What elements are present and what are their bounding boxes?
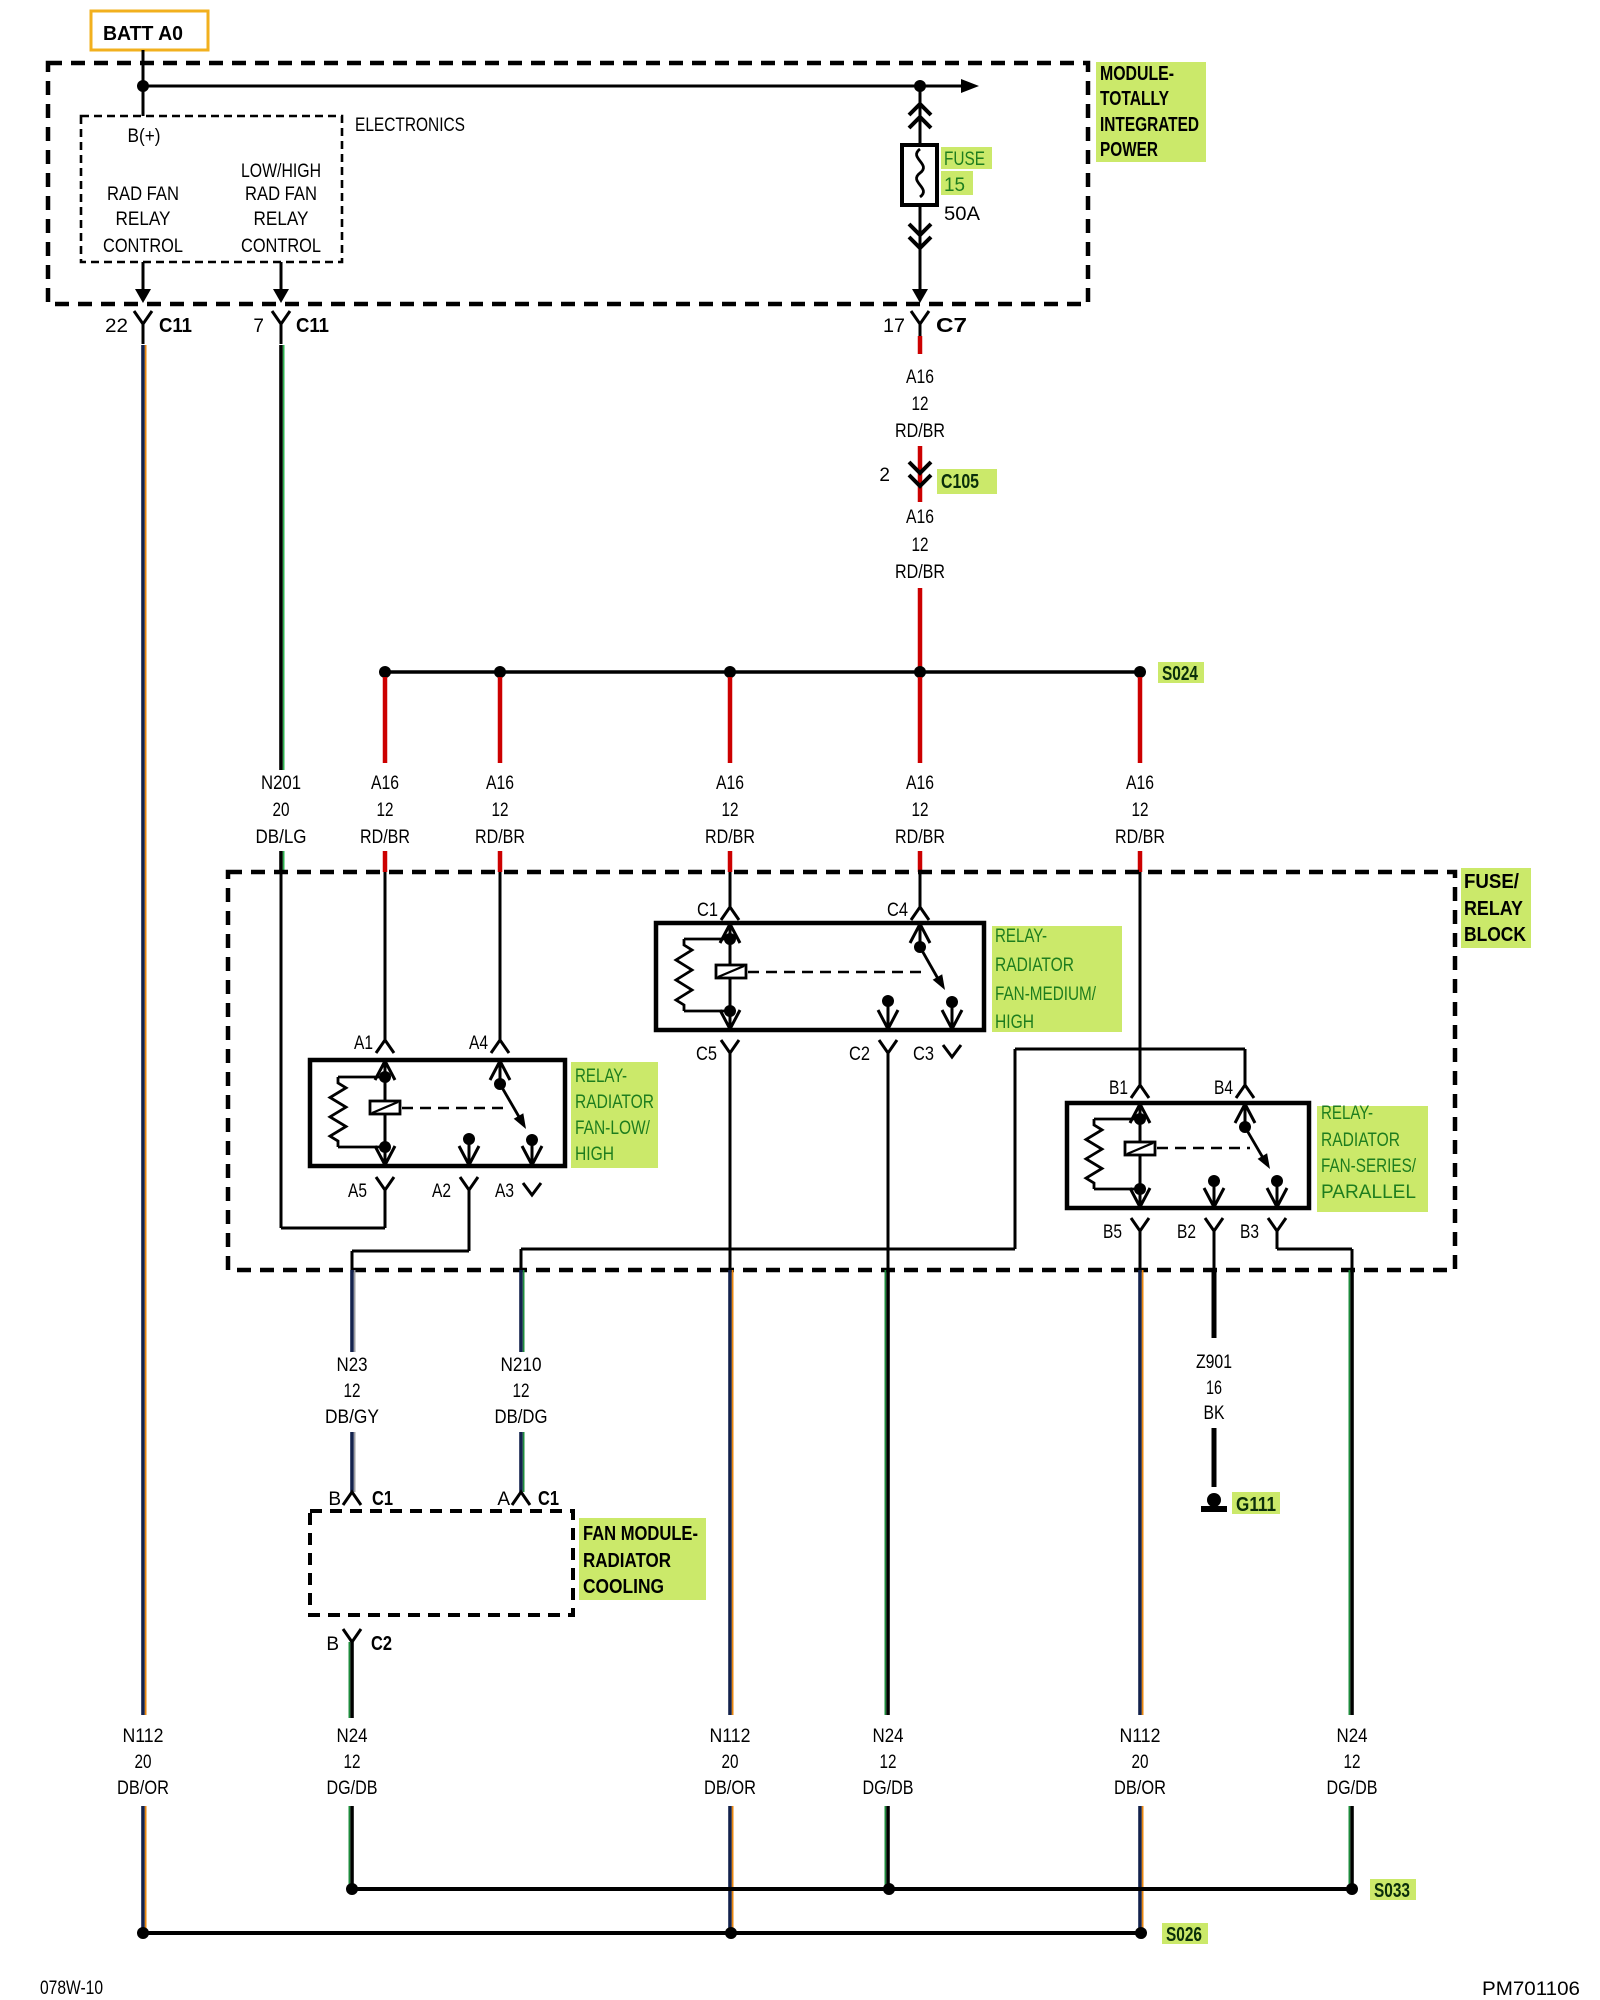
- svg-text:PM701106: PM701106: [1482, 1979, 1580, 2000]
- svg-text:CONTROL: CONTROL: [241, 236, 321, 257]
- connector C1 pin B (fan module): [328, 1488, 393, 1510]
- label A16 12 RD/BR at x=920: [895, 773, 945, 848]
- connector pin B4: [1214, 1078, 1254, 1099]
- relay U1 RELAY-RADIATOR FAN-LOW/HIGH box: [310, 1060, 565, 1166]
- svg-text:PARALLEL: PARALLEL: [1321, 1182, 1416, 1203]
- svg-text:RD/BR: RD/BR: [360, 827, 410, 848]
- wire N23 lower to connector: [352, 1432, 355, 1492]
- wire N24 center lower to splice S033: [885, 1806, 888, 1889]
- svg-text:7: 7: [253, 316, 264, 337]
- svg-text:C11: C11: [159, 315, 192, 337]
- wire: low/high rad fan relay control output: [273, 262, 289, 303]
- svg-text:S026: S026: [1166, 1924, 1202, 1946]
- connector C11 pin 22: [105, 311, 192, 344]
- wire N24 12 DG/DB (from B3): [1349, 1270, 1352, 1715]
- svg-text:2: 2: [879, 465, 890, 486]
- svg-text:20: 20: [722, 1752, 739, 1773]
- wire: fuse output to C7: [912, 289, 928, 303]
- wire relay3 B5 down: [1139, 1231, 1142, 1270]
- svg-text:12: 12: [912, 535, 929, 556]
- svg-text:B1: B1: [1109, 1078, 1128, 1099]
- svg-text:RADIATOR: RADIATOR: [1321, 1130, 1400, 1151]
- svg-text:RADIATOR: RADIATOR: [575, 1092, 654, 1113]
- wire A16 12 RD/BR (fused feed): [918, 336, 923, 354]
- wire to relay2 pin C4: [919, 872, 922, 907]
- wire N112 left lower to splice S026: [143, 1806, 146, 1933]
- wire relay3 B2 down: [1213, 1231, 1216, 1270]
- sheet number 078W-10: [40, 1978, 103, 1999]
- wire A16 lower stub at x=920: [918, 851, 923, 872]
- wire N210 12 DB/DG upper: [521, 1270, 524, 1352]
- svg-text:MODULE-: MODULE-: [1100, 63, 1174, 85]
- connector C11 pin 7: [253, 311, 329, 344]
- svg-text:12: 12: [722, 800, 739, 821]
- connector pin B3: [1240, 1218, 1286, 1243]
- connector pin C1: [697, 900, 739, 921]
- connector pin C2: [849, 1040, 897, 1065]
- label N24 12 DG/DB (center): [863, 1726, 914, 1799]
- sheet id PM701106: [1482, 1979, 1580, 2000]
- connector pin A4: [469, 1033, 509, 1054]
- label A16 12 RD/BR at x=1140: [1115, 773, 1165, 848]
- wire: battery bus to fuse, arrow right: [143, 79, 979, 93]
- wire A16 12 RD/BR drop at x=1140: [1138, 677, 1143, 763]
- relay3 switch: [1208, 1105, 1283, 1206]
- svg-text:17: 17: [883, 316, 905, 337]
- connector pin B1: [1109, 1078, 1149, 1099]
- relay3 pin arrows at edges: [1130, 1104, 1287, 1207]
- svg-text:50A: 50A: [944, 204, 980, 225]
- wire below fuse: [919, 205, 922, 291]
- wire Z from relay2 area to relay3 pin B4: [521, 1049, 1245, 1270]
- svg-text:A16: A16: [906, 773, 934, 794]
- wire A16 12 RD/BR drop at x=730: [728, 677, 733, 763]
- svg-text:RD/BR: RD/BR: [895, 421, 945, 442]
- wire: rad fan relay control output: [135, 262, 151, 303]
- svg-text:FAN MODULE-: FAN MODULE-: [583, 1523, 698, 1545]
- wire to relay1 pin A4: [499, 872, 502, 1040]
- svg-text:RELAY: RELAY: [1464, 898, 1524, 920]
- svg-text:POWER: POWER: [1100, 139, 1158, 161]
- svg-text:A3: A3: [495, 1181, 514, 1202]
- svg-text:12: 12: [912, 394, 929, 415]
- label N112 20 DB/OR (right): [1114, 1726, 1166, 1799]
- svg-text:A16: A16: [906, 367, 934, 388]
- label A16 12 RD/BR at x=730: [705, 773, 755, 848]
- splice S033 nodes: [346, 1883, 1358, 1895]
- junction node S024 at x=500: [494, 666, 506, 678]
- svg-text:RELAY-: RELAY-: [995, 926, 1047, 947]
- relay1 label RELAY-RADIATOR FAN-LOW/HIGH: [571, 1062, 658, 1168]
- wire N112 center lower to splice S026: [730, 1806, 733, 1933]
- label G111: [1232, 1492, 1280, 1516]
- relay3 actuation dashed link: [1157, 1147, 1250, 1150]
- svg-text:G111: G111: [1236, 1494, 1276, 1516]
- svg-text:Z901: Z901: [1196, 1352, 1232, 1373]
- splice S024 label: [1158, 662, 1204, 685]
- connector pin B2: [1177, 1218, 1223, 1243]
- svg-text:RAD FAN: RAD FAN: [245, 184, 317, 205]
- svg-text:A: A: [497, 1489, 510, 1510]
- svg-text:15: 15: [944, 175, 965, 196]
- connector C7 pin 17: [883, 311, 967, 337]
- wire N112 right lower to splice S026: [1140, 1806, 1143, 1933]
- pin label B(+): [128, 126, 161, 147]
- label FAN MODULE-RADIATOR COOLING: [579, 1518, 706, 1600]
- svg-text:N24: N24: [337, 1726, 368, 1747]
- svg-text:RELAY-: RELAY-: [575, 1066, 627, 1087]
- svg-text:S033: S033: [1374, 1880, 1410, 1902]
- svg-text:B5: B5: [1103, 1222, 1122, 1243]
- svg-text:12: 12: [1132, 800, 1149, 821]
- wire N24 12 DG/DB (from C2): [885, 1270, 888, 1715]
- wire segment to C105: [918, 446, 923, 502]
- svg-text:C2: C2: [849, 1044, 870, 1065]
- svg-text:BATT A0: BATT A0: [103, 23, 183, 45]
- relay1 switch: [463, 1062, 538, 1164]
- connector pin A5: [348, 1177, 394, 1202]
- wire relay3 B3 jog to N24 column: [1277, 1231, 1352, 1270]
- svg-text:B2: B2: [1177, 1222, 1196, 1243]
- svg-text:A16: A16: [1126, 773, 1154, 794]
- label N201 20 DB/LG: [256, 773, 307, 848]
- svg-text:BK: BK: [1204, 1403, 1225, 1424]
- wire A16 lower stub at x=730: [728, 851, 733, 872]
- svg-text:N24: N24: [873, 1726, 904, 1747]
- battery feed label BATT A0: [91, 11, 208, 50]
- svg-text:DB/LG: DB/LG: [256, 827, 307, 848]
- text LOW/HIGH RAD FAN RELAY CONTROL: [241, 161, 321, 257]
- label FUSE 15 50A: [941, 147, 992, 225]
- wire A16 12 RD/BR drop at x=385: [383, 677, 388, 763]
- junction node S024 at x=920: [914, 666, 926, 678]
- wire N112 20 DB/OR left run: [143, 345, 146, 1715]
- svg-text:B(+): B(+): [128, 126, 161, 147]
- svg-text:TOTALLY: TOTALLY: [1100, 88, 1170, 110]
- relay1 actuation dashed link: [402, 1107, 505, 1110]
- svg-text:12: 12: [344, 1381, 361, 1402]
- svg-text:12: 12: [880, 1752, 897, 1773]
- relay3 coil suppression resistor: [1086, 1119, 1140, 1189]
- svg-text:C7: C7: [936, 315, 967, 337]
- wire N23 12 DB/GY upper: [352, 1270, 355, 1352]
- relay3 coil branch: [1134, 1105, 1146, 1206]
- relay2 coil: [716, 965, 746, 978]
- svg-text:C2: C2: [371, 1633, 392, 1655]
- svg-text:C5: C5: [696, 1044, 717, 1065]
- svg-text:INTEGRATED: INTEGRATED: [1100, 114, 1199, 136]
- svg-text:DB/OR: DB/OR: [704, 1778, 756, 1799]
- splice S033 label: [1370, 1879, 1416, 1902]
- relay2 actuation dashed link: [748, 971, 925, 974]
- svg-text:DG/DB: DG/DB: [1327, 1778, 1378, 1799]
- relay U2 RELAY-RADIATOR FAN-MEDIUM/HIGH box: [656, 923, 984, 1030]
- label N23 12 DB/GY: [325, 1355, 379, 1428]
- wire: tap down to fuse: [919, 86, 922, 146]
- svg-text:RADIATOR: RADIATOR: [995, 955, 1074, 976]
- relay1 coil branch: [379, 1062, 391, 1164]
- label N24 12 DG/DB: [327, 1726, 378, 1799]
- relay2 pin arrows at edges: [720, 924, 962, 1029]
- svg-text:A2: A2: [432, 1181, 451, 1202]
- wire relay1 A2 to fan module: [352, 1190, 469, 1270]
- wire N201 20 DB/LG upper segment: [281, 345, 284, 770]
- module: totally integrated power, dashed outline: [48, 63, 1088, 304]
- wire A16 lower stub at x=1140: [1138, 851, 1143, 872]
- ground G111: [1201, 1493, 1227, 1512]
- wire N24 12 DG/DB from fan module: [349, 1642, 352, 1718]
- svg-text:A5: A5: [348, 1181, 367, 1202]
- junction node at fuse tap: [914, 80, 926, 92]
- svg-text:N112: N112: [1120, 1726, 1161, 1747]
- connector pin A1: [354, 1033, 394, 1054]
- svg-text:C1: C1: [538, 1488, 559, 1510]
- wire N112 20 DB/OR (from B5): [1140, 1270, 1143, 1715]
- svg-text:C11: C11: [296, 315, 329, 337]
- wire A16 12 RD/BR drop at x=500: [498, 677, 503, 763]
- junction node S024 at x=1140: [1134, 666, 1146, 678]
- connector C105 pin 2: [879, 462, 997, 494]
- svg-text:C105: C105: [941, 471, 979, 493]
- wire A16 lower stub at x=385: [383, 851, 388, 872]
- svg-text:HIGH: HIGH: [575, 1144, 614, 1165]
- relay U3 RELAY-RADIATOR FAN-SERIES/PARALLEL box: [1067, 1103, 1309, 1208]
- splice S026 nodes: [137, 1927, 1147, 1939]
- svg-text:HIGH: HIGH: [995, 1012, 1034, 1033]
- wire relay2 C2 down: [887, 1053, 890, 1270]
- svg-text:LOW/HIGH: LOW/HIGH: [241, 161, 321, 182]
- inline connector below fuse: [909, 224, 931, 248]
- svg-text:20: 20: [1132, 1752, 1149, 1773]
- svg-text:12: 12: [513, 1381, 530, 1402]
- svg-text:RELAY: RELAY: [116, 209, 171, 230]
- svg-text:BLOCK: BLOCK: [1464, 924, 1526, 946]
- svg-text:DB/GY: DB/GY: [325, 1407, 379, 1428]
- svg-text:DG/DB: DG/DB: [327, 1778, 378, 1799]
- label A16 12 RD/BR: [895, 507, 945, 583]
- fan module-radiator cooling dashed box: [310, 1511, 573, 1615]
- connector pin A2: [432, 1177, 478, 1202]
- junction node S024 at x=730: [724, 666, 736, 678]
- svg-text:RELAY: RELAY: [254, 209, 309, 230]
- label FUSE/RELAY BLOCK: [1461, 868, 1531, 948]
- svg-text:DB/DG: DB/DG: [495, 1407, 548, 1428]
- svg-text:078W-10: 078W-10: [40, 1978, 103, 1999]
- wire from BATT A0 into module: [142, 50, 145, 116]
- connector pin C4: [887, 900, 929, 921]
- fuse 15 50A: [902, 145, 937, 205]
- svg-text:ELECTRONICS: ELECTRONICS: [355, 115, 465, 136]
- svg-text:RD/BR: RD/BR: [895, 562, 945, 583]
- wire Z901 16 BK (from B2): [1212, 1270, 1217, 1338]
- svg-text:12: 12: [377, 800, 394, 821]
- svg-text:B: B: [326, 1634, 339, 1655]
- svg-text:C1: C1: [697, 900, 718, 921]
- label A16 12 RD/BR: [895, 367, 945, 442]
- svg-text:RD/BR: RD/BR: [1115, 827, 1165, 848]
- relay1 pin arrows at edges: [375, 1061, 542, 1165]
- relay3 label RELAY-RADIATOR FAN-SERIES/PARALLEL: [1317, 1103, 1428, 1212]
- label N112 20 DB/OR (center): [704, 1726, 756, 1799]
- connector pin C5: [696, 1040, 739, 1065]
- wire N201 to relay1 A5: [281, 1190, 385, 1228]
- svg-text:DG/DB: DG/DB: [863, 1778, 914, 1799]
- svg-text:N112: N112: [710, 1726, 751, 1747]
- wire N112 20 DB/OR (from C5): [730, 1270, 733, 1715]
- label N210 12 DB/DG: [495, 1355, 548, 1428]
- svg-text:COOLING: COOLING: [583, 1576, 664, 1598]
- connector pin A3 (open): [495, 1181, 541, 1202]
- svg-text:FUSE: FUSE: [944, 149, 985, 170]
- wire N24 lower to splice S033: [349, 1806, 352, 1889]
- svg-text:A16: A16: [486, 773, 514, 794]
- relay1 coil: [370, 1101, 400, 1114]
- relay2 coil branch: [724, 925, 736, 1028]
- svg-text:B4: B4: [1214, 1078, 1233, 1099]
- svg-text:C3: C3: [913, 1044, 934, 1065]
- label N112 20 DB/OR (left): [117, 1726, 169, 1799]
- svg-text:A1: A1: [354, 1033, 373, 1054]
- svg-text:FAN-MEDIUM/: FAN-MEDIUM/: [995, 984, 1097, 1005]
- splice S024 bus: [385, 670, 1140, 673]
- svg-text:FUSE/: FUSE/: [1464, 871, 1519, 893]
- wire Z901 lower to ground: [1212, 1428, 1217, 1487]
- svg-text:RELAY-: RELAY-: [1321, 1103, 1373, 1124]
- svg-text:RADIATOR: RADIATOR: [583, 1550, 671, 1572]
- svg-text:12: 12: [912, 800, 929, 821]
- wire to relay3 pin B1: [1139, 872, 1142, 1085]
- svg-text:B3: B3: [1240, 1222, 1259, 1243]
- relay3 coil: [1125, 1142, 1155, 1155]
- svg-text:12: 12: [492, 800, 509, 821]
- svg-text:12: 12: [1344, 1752, 1361, 1773]
- relay2 label RELAY-RADIATOR FAN-MEDIUM/HIGH: [992, 926, 1122, 1033]
- label A16 12 RD/BR at x=385: [360, 773, 410, 848]
- svg-text:12: 12: [344, 1752, 361, 1773]
- svg-text:B: B: [328, 1489, 341, 1510]
- svg-text:16: 16: [1206, 1378, 1222, 1399]
- svg-text:20: 20: [135, 1752, 152, 1773]
- wire A16 lower stub at x=500: [498, 851, 503, 872]
- wire to relay2 pin C1: [729, 872, 732, 907]
- relay2 coil suppression resistor: [676, 939, 730, 1011]
- svg-text:C1: C1: [372, 1488, 393, 1510]
- label Z901 16 BK: [1196, 1352, 1232, 1424]
- connector pin C3 (open): [913, 1044, 961, 1065]
- svg-text:RAD FAN: RAD FAN: [107, 184, 179, 205]
- svg-text:A16: A16: [716, 773, 744, 794]
- svg-text:DB/OR: DB/OR: [117, 1778, 169, 1799]
- svg-text:RD/BR: RD/BR: [705, 827, 755, 848]
- electronics sub-module dashed box: [81, 116, 342, 262]
- svg-text:N112: N112: [123, 1726, 164, 1747]
- wire N201 lower segment into fuse/relay block: [281, 851, 284, 1228]
- label MODULE-TOTALLY INTEGRATED POWER: [1096, 62, 1206, 162]
- wire to relay1 pin A1: [384, 872, 387, 1040]
- wire relay2 C5 down: [729, 1053, 732, 1270]
- connector C1 pin A (fan module): [497, 1488, 559, 1510]
- svg-text:22: 22: [105, 316, 128, 337]
- connector C2 pin B (fan module out): [326, 1629, 392, 1655]
- inline connector above fuse: [909, 104, 931, 128]
- label ELECTRONICS: [355, 115, 465, 136]
- splice S026 bus: [143, 1931, 1141, 1935]
- svg-text:20: 20: [273, 800, 290, 821]
- svg-text:C4: C4: [887, 900, 908, 921]
- junction node on battery feed: [137, 80, 149, 92]
- text RAD FAN RELAY CONTROL: [103, 184, 183, 257]
- svg-text:DB/OR: DB/OR: [1114, 1778, 1166, 1799]
- svg-text:CONTROL: CONTROL: [103, 236, 183, 257]
- svg-text:RD/BR: RD/BR: [475, 827, 525, 848]
- svg-text:A4: A4: [469, 1033, 488, 1054]
- splice S033 bus: [352, 1887, 1352, 1891]
- wire N24 right lower to splice S033: [1349, 1806, 1352, 1889]
- wire N210 lower to connector: [521, 1432, 524, 1492]
- svg-text:FAN-LOW/: FAN-LOW/: [575, 1118, 651, 1139]
- svg-text:RD/BR: RD/BR: [895, 827, 945, 848]
- label A16 12 RD/BR at x=500: [475, 773, 525, 848]
- junction node S024 at x=385: [379, 666, 391, 678]
- relay2 switch: [882, 925, 958, 1028]
- svg-text:S024: S024: [1162, 663, 1199, 685]
- svg-text:A16: A16: [906, 507, 934, 528]
- splice S026 label: [1162, 1923, 1208, 1946]
- label N24 12 DG/DB (right): [1327, 1726, 1378, 1799]
- svg-text:A16: A16: [371, 773, 399, 794]
- svg-text:N201: N201: [261, 773, 301, 794]
- svg-text:N24: N24: [1337, 1726, 1368, 1747]
- svg-text:FAN-SERIES/: FAN-SERIES/: [1321, 1156, 1417, 1177]
- relay1 coil suppression resistor: [330, 1077, 385, 1147]
- fuse/relay block dashed outline: [228, 872, 1455, 1270]
- svg-text:N23: N23: [337, 1355, 368, 1376]
- connector pin B5: [1103, 1218, 1149, 1243]
- wire down to splice S024: [918, 588, 923, 670]
- wire A16 12 RD/BR drop at x=920: [918, 677, 923, 763]
- svg-text:N210: N210: [501, 1355, 542, 1376]
